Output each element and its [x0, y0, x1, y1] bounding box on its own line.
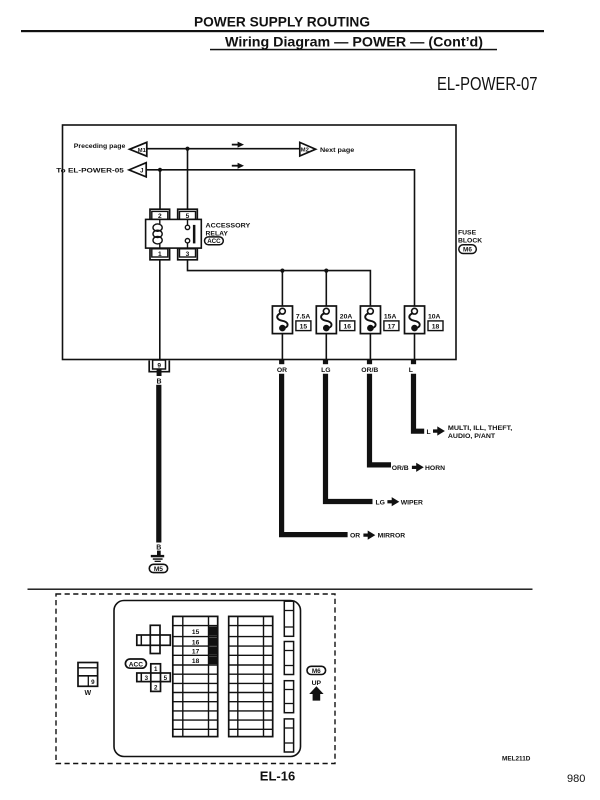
node: fuse bus junction 1	[280, 269, 284, 273]
label B at terminal 9	[156, 379, 161, 386]
svg-text:MEL211D: MEL211D	[502, 755, 531, 762]
svg-text:FUSE: FUSE	[458, 230, 477, 237]
svg-text:MIRROR: MIRROR	[378, 533, 406, 540]
svg-text:POWER SUPPLY ROUTING: POWER SUPPLY ROUTING	[194, 13, 370, 29]
svg-text:980: 980	[567, 773, 585, 785]
svg-text:OR: OR	[277, 367, 287, 374]
fuse block boundary box M6	[63, 125, 457, 360]
fuse block outline	[114, 601, 301, 757]
svg-text:9: 9	[91, 679, 95, 686]
connector strip group 3	[284, 681, 293, 713]
svg-text:ACC: ACC	[207, 238, 221, 245]
svg-text:MULTI, ILL, THEFT,: MULTI, ILL, THEFT,	[448, 425, 512, 432]
label 7.5A / 15	[296, 313, 311, 330]
svg-text:2: 2	[154, 685, 158, 692]
wire: bus to fuse 15	[281, 271, 283, 306]
ground symbol M5	[151, 551, 164, 562]
thick wire OR/B to horn	[370, 374, 392, 465]
svg-text:M1: M1	[138, 148, 147, 154]
svg-text:LG: LG	[376, 500, 385, 507]
subtitle	[225, 34, 483, 50]
wire: fuse 18 to box edge	[414, 334, 416, 360]
svg-text:B: B	[156, 379, 161, 386]
node: fuse bus junction 2	[324, 269, 328, 273]
connector strip group 1	[284, 601, 293, 636]
up arrow	[309, 686, 323, 700]
wire: fuse 16 to box edge	[325, 334, 327, 360]
connector M6 oval	[459, 245, 477, 254]
label To EL-POWER-05	[56, 168, 124, 175]
connector 9 W	[78, 663, 98, 687]
svg-text:ACC: ACC	[129, 661, 144, 668]
fuse 18 10A	[405, 306, 425, 334]
ACC oval on layout	[125, 659, 146, 668]
wire stub LG	[323, 360, 328, 364]
label L under box	[409, 367, 413, 374]
connector strip group 4	[284, 719, 293, 752]
label LG output	[376, 500, 385, 507]
relay pin 3 terminal	[178, 248, 198, 260]
wire: relay pin 1 to terminal 9	[159, 260, 161, 359]
svg-text:ACCESSORY: ACCESSORY	[206, 222, 251, 229]
svg-text:BLOCK: BLOCK	[458, 238, 482, 245]
fuse 18 slot marker	[192, 656, 218, 665]
svg-text:B: B	[156, 544, 161, 551]
svg-text:3: 3	[186, 251, 190, 258]
svg-text:16: 16	[192, 639, 200, 646]
fuse 15 7.5A	[272, 306, 292, 334]
thick wire L to audio	[414, 374, 425, 431]
node: junction preceding bus / relay pin 5	[185, 147, 189, 151]
label LG under box	[321, 367, 330, 374]
label HORN	[425, 465, 445, 472]
terminal 9 at fuse block edge	[149, 360, 169, 376]
wire stub L	[411, 360, 416, 364]
svg-text:M2: M2	[301, 148, 309, 154]
svg-text:15: 15	[192, 629, 200, 636]
svg-text:20A: 20A	[340, 313, 353, 320]
svg-text:M6: M6	[463, 247, 472, 254]
relay pin 2 terminal	[150, 209, 170, 220]
relay socket upper (cross)	[137, 625, 171, 653]
fuse grid left	[173, 616, 218, 736]
label Next page	[320, 147, 355, 154]
relay coil	[153, 219, 162, 248]
svg-text:OR: OR	[350, 533, 360, 540]
label W	[84, 690, 91, 697]
connector M1 (preceding page, triangle)	[130, 142, 147, 156]
svg-text:L: L	[409, 367, 413, 374]
thick wire LG to wiper	[326, 374, 373, 502]
svg-text:Preceding page: Preceding page	[74, 143, 126, 150]
wire: fuse 17 to box edge	[369, 334, 371, 360]
wire: to EL-POWER-05 bus	[146, 170, 414, 306]
svg-text:L: L	[427, 429, 431, 436]
relay pin 5 terminal	[178, 209, 198, 220]
svg-text:9: 9	[157, 363, 161, 370]
wire: fuse 15 to box edge	[281, 334, 283, 360]
label 20A / 16	[340, 313, 355, 330]
relay ACC oval	[205, 237, 224, 245]
svg-text:18: 18	[432, 324, 440, 331]
svg-text:UP: UP	[312, 680, 322, 687]
relay socket lower with pins 1 3 5 2	[137, 664, 171, 692]
label FUSE BLOCK	[458, 230, 482, 245]
label Preceding page	[74, 143, 126, 150]
ground connector M5 oval	[149, 564, 167, 573]
fuse 17 slot marker	[192, 647, 218, 656]
node: junction EL-POWER-05 bus / relay pin 2	[158, 168, 162, 172]
svg-text:LG: LG	[321, 367, 330, 374]
label EL-16	[260, 769, 295, 784]
arrow to WIPER	[387, 497, 399, 506]
label MULTI ILL THEFT AUDIO P/ANT	[448, 425, 512, 440]
svg-text:Next page: Next page	[320, 147, 355, 154]
label 15A / 17	[384, 313, 399, 330]
label OR/B under box	[361, 367, 378, 374]
svg-text:J: J	[140, 169, 143, 175]
arrow to MIRROR	[363, 531, 375, 540]
svg-text:17: 17	[192, 649, 200, 656]
connector J (to EL-POWER-05, triangle)	[129, 163, 146, 177]
arrow to MULTI	[433, 426, 445, 435]
label OR output	[350, 533, 360, 540]
direction arrow on preceding page bus	[232, 142, 244, 148]
wire: bus to fuse 16	[325, 271, 327, 306]
fuse 16 slot marker	[192, 638, 218, 647]
svg-text:15: 15	[300, 324, 308, 331]
svg-text:10A: 10A	[428, 313, 441, 320]
accessory relay body	[146, 219, 202, 248]
connector strip group 2	[284, 642, 293, 675]
svg-text:16: 16	[344, 324, 352, 331]
svg-text:W: W	[84, 690, 91, 697]
svg-text:17: 17	[388, 324, 396, 331]
svg-text:AUDIO, P/ANT: AUDIO, P/ANT	[448, 433, 496, 440]
svg-text:18: 18	[192, 658, 200, 665]
svg-text:OR/B: OR/B	[361, 367, 378, 374]
connector M6 oval on layout	[307, 666, 326, 675]
fuse grid right	[229, 616, 273, 736]
fuse 15 slot marker	[192, 627, 218, 636]
arrow to HORN	[412, 463, 424, 472]
subtitle underline	[210, 49, 497, 51]
svg-text:Wiring Diagram — POWER — (Cont: Wiring Diagram — POWER — (Cont’d)	[225, 34, 483, 50]
label MIRROR	[378, 533, 406, 540]
wire: bus to relay pin 5	[187, 149, 189, 210]
svg-text:15A: 15A	[384, 313, 397, 320]
label B above ground	[156, 544, 161, 551]
direction arrow on EL-POWER-05 bus	[232, 163, 244, 169]
svg-text:OR/B: OR/B	[392, 465, 409, 472]
page title	[194, 13, 370, 29]
wire stub OR/B	[367, 360, 372, 364]
label UP	[312, 680, 322, 687]
svg-text:EL-16: EL-16	[260, 769, 295, 784]
wire: relay pin 3 to fuse bus	[188, 260, 371, 306]
svg-text:M5: M5	[154, 566, 163, 573]
wire stub OR	[279, 360, 284, 364]
svg-text:7.5A: 7.5A	[296, 313, 310, 320]
page code EL-POWER-07	[437, 74, 538, 94]
relay pin 1 terminal	[150, 248, 170, 260]
label OR/B output	[392, 465, 409, 472]
svg-text:M6: M6	[312, 668, 321, 675]
svg-text:EL-POWER-07: EL-POWER-07	[437, 74, 538, 94]
label MEL211D	[502, 755, 531, 762]
svg-text:WIPER: WIPER	[401, 500, 423, 507]
relay switch contacts	[185, 219, 195, 248]
svg-text:3: 3	[145, 675, 149, 682]
page number 980	[567, 773, 585, 785]
label WIPER	[401, 500, 423, 507]
wire: preceding page bus	[147, 148, 301, 150]
label L output	[427, 429, 431, 436]
label ACCESSORY RELAY	[206, 222, 251, 237]
fuse 17 15A	[360, 306, 380, 334]
label 10A / 18	[428, 313, 443, 330]
fuse 16 20A	[316, 306, 336, 334]
svg-text:1: 1	[154, 666, 158, 673]
connector M2 (next page, triangle)	[300, 142, 316, 156]
svg-text:To EL-POWER-05: To EL-POWER-05	[56, 168, 124, 175]
thick wire B to ground	[156, 385, 161, 543]
wire: bus to relay pin 2	[159, 170, 161, 210]
dashed layout frame	[56, 594, 335, 764]
thick wire OR to mirror	[282, 374, 348, 535]
svg-text:1: 1	[158, 251, 162, 258]
svg-text:HORN: HORN	[425, 465, 445, 472]
svg-text:5: 5	[164, 675, 168, 682]
label OR under box	[277, 367, 287, 374]
section divider line	[28, 589, 533, 590]
title rule	[21, 30, 544, 32]
